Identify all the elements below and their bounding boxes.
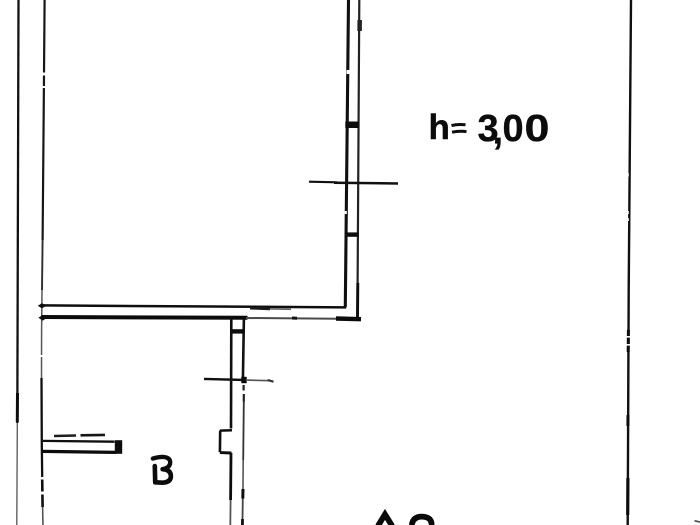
svg-text:0: 0	[525, 106, 550, 149]
svg-text:h: h	[429, 108, 450, 147]
svg-text:,: ,	[493, 111, 504, 153]
svg-text:0: 0	[503, 108, 524, 150]
